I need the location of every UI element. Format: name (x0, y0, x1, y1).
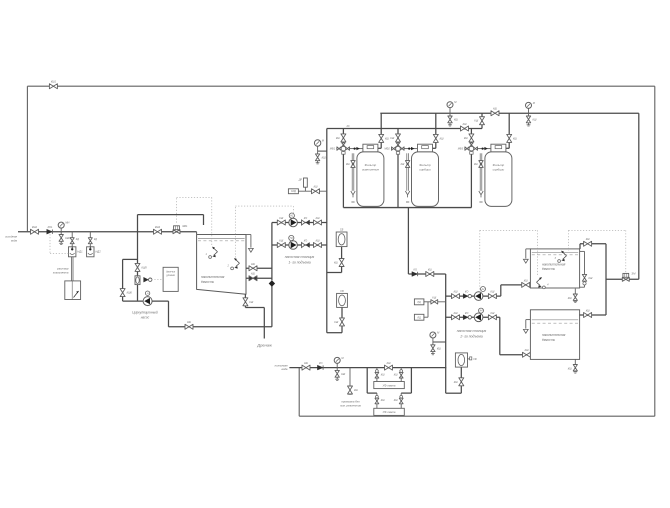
filter 2 head (418, 144, 433, 152)
valve on tank A fill (584, 238, 592, 246)
valve on tank B suction (523, 349, 531, 357)
control dash: tank A probe to station2 pump (480, 230, 538, 291)
wire: raw water main line (18, 231, 197, 233)
wire: UV unit 1 stems and side legs (367, 368, 411, 394)
valve on filter 3 backwash riser (464, 134, 474, 142)
tag circle N2 (289, 235, 294, 243)
svg-text:КД: КД (76, 238, 79, 241)
wire: filter 1 backwash riser / drain downpipe (342, 129, 344, 208)
svg-text:Н: Н (147, 292, 149, 295)
UV lamp unit 2 (374, 408, 405, 415)
level probe LS upper (middle tank) (206, 247, 218, 259)
svg-text:НД1: НД1 (77, 250, 83, 254)
valve on filter 1 filtered riser (379, 134, 390, 142)
pressure gauge MN1 (58, 221, 69, 232)
svg-text:Фильтр: Фильтр (419, 163, 431, 167)
valve KSh6 on bypass loop (120, 289, 132, 297)
valve KSh31 on suction link (426, 268, 434, 276)
svg-text:А4: А4 (479, 310, 484, 313)
svg-text:насосная станция: насосная станция (285, 255, 315, 259)
wire: filter 1 filtered riser (378, 113, 381, 148)
tag circle N1 (289, 213, 294, 218)
UV unit1 right stem valves (394, 370, 403, 378)
pressure switch box RD1 (414, 299, 424, 305)
pressure gauge MN3 (447, 100, 457, 113)
svg-text:хим. реагентов: хим. реагентов (339, 403, 361, 407)
label: tank A (542, 262, 566, 271)
svg-text:КШ: КШ (437, 346, 442, 350)
level transmitter box (163, 267, 178, 291)
svg-text:ёмкость: ёмкость (201, 280, 214, 284)
valve KSh4 before tank (154, 226, 162, 234)
solenoid valve EM2 tank fill (622, 271, 636, 281)
check valve KO1 raw inlet (47, 226, 53, 234)
svg-text:вода: вода (11, 238, 17, 242)
control dash: EM1 to middle tank level probe (177, 197, 212, 246)
svg-text:датчик: датчик (166, 270, 176, 274)
overflow funnel tank B (523, 320, 530, 334)
wire: filter 2 feed line with arrow (404, 147, 418, 150)
wire: manifold connector (481, 113, 483, 128)
svg-text:коагулянта: коагулянта (53, 270, 69, 274)
valve on filter 3 filtered riser (507, 134, 518, 142)
flow indicator box DR (288, 189, 326, 194)
wire: filter 1 feed line with arrow (349, 147, 363, 150)
wire: tank A side loop (580, 251, 585, 287)
bypass valve on bottom main line (385, 362, 393, 370)
check valve station2 line A (463, 291, 471, 299)
valve on filter 1 backwash riser (336, 134, 346, 142)
valve on tank A suction (522, 279, 530, 287)
tank B bottom drain (568, 359, 578, 373)
valve KSh11 (closed) on outlet stub 2 (249, 273, 257, 281)
valve on pump line B (suction) (277, 240, 285, 248)
wire: top bypass line (27, 85, 654, 87)
valve KSh10 on outlet stub 1 (249, 263, 257, 271)
node: raw water inlet label (5, 235, 17, 243)
valve KSh13 on circulation return (185, 321, 193, 329)
circulation pump (143, 291, 152, 306)
label: tank B (542, 333, 566, 342)
svg-text:осветления: осветления (362, 168, 379, 172)
svg-text:Фильтр: Фильтр (493, 163, 505, 167)
valve KSh1 on top bypass line (49, 81, 57, 89)
tank A bottom drain (568, 289, 578, 303)
multiport valve MF2 (384, 143, 404, 154)
label: solution tank (53, 267, 69, 275)
svg-text:КС: КС (347, 125, 350, 128)
svg-text:уровня: уровня (165, 274, 175, 277)
svg-text:КШ5: КШ5 (142, 266, 148, 269)
svg-text:КШ: КШ (454, 118, 459, 122)
storage tank (middle) накопительная ёмкость (197, 232, 246, 295)
svg-text:УФ лампа: УФ лампа (383, 383, 396, 387)
wire: pressure switch connections (424, 302, 446, 317)
label: circulation pump (132, 310, 158, 319)
svg-text:ЭМ1: ЭМ1 (182, 224, 188, 228)
overflow funnel of middle tank (246, 235, 253, 253)
label: drain (256, 342, 272, 347)
dosing pump ND1 with stub valve (69, 232, 84, 257)
svg-text:сорбции: сорбции (419, 168, 431, 172)
dosing pump ND2 with stub valve (87, 232, 102, 257)
svg-text:накопительная: накопительная (542, 333, 566, 337)
water meter vessel 2 (337, 290, 348, 308)
valve on manifold connector (474, 117, 484, 125)
svg-text:ёмкость: ёмкость (542, 267, 555, 271)
mesh filter SF (455, 353, 477, 367)
wire: station2 line A (446, 295, 501, 297)
wire: riser bottom to water meter 2 (327, 307, 342, 332)
svg-text:МФ3: МФ3 (458, 148, 464, 151)
storage tank A (530, 249, 579, 288)
wire: filter 2 backwash riser / drain downpipe (397, 129, 399, 208)
wire: tank bottom drain (245, 294, 264, 338)
label: pump station 2 (457, 329, 487, 339)
svg-text:КШ2: КШ2 (32, 226, 38, 229)
wire: circulation bypass loop (123, 259, 144, 301)
filter 1 vessel (357, 152, 384, 207)
svg-text:А2: А2 (481, 288, 486, 291)
wire: filter 2 filtered riser (433, 113, 436, 148)
level probe upper tank A (555, 251, 567, 263)
pressure switch box RD2 (414, 314, 424, 320)
valve KSh32 bottom inlet (302, 362, 310, 370)
filter 3 drain dip tube with strainer (474, 153, 483, 202)
valve on pump line A (discharge) (314, 217, 322, 225)
svg-text:МФ1: МФ1 (330, 148, 336, 151)
valve on filtered manifold (491, 108, 499, 116)
pressure gauge MN4 (526, 101, 536, 113)
svg-text:КШ: КШ (341, 372, 346, 376)
UV lamp unit 1 (374, 382, 405, 389)
filter 3 vessel (485, 152, 512, 207)
svg-text:КШ6: КШ6 (127, 292, 133, 295)
sampling valve KSh3 (59, 232, 71, 245)
label: wash without reagents (339, 400, 361, 408)
svg-text:КО: КО (304, 217, 307, 220)
wire: station1 suction manifold (271, 223, 273, 281)
valve on wash branch (348, 386, 359, 394)
check valve station2 line B (463, 312, 471, 320)
svg-text:РД: РД (418, 301, 421, 304)
node: bottom inlet label (275, 363, 288, 371)
wire: backwash manifold (327, 128, 482, 130)
svg-text:КШ: КШ (533, 118, 538, 122)
svg-text:насос: насос (141, 316, 150, 320)
sampling valve below MN4 (526, 113, 537, 126)
wire: UV unit 2 stems (377, 393, 401, 408)
rotameter DR on branch (298, 178, 308, 191)
wire: station1 discharge riser (326, 129, 328, 333)
svg-text:КШ4: КШ4 (155, 226, 161, 229)
valve on filter 2 backwash riser (390, 134, 400, 142)
valve on instrument branch (312, 186, 320, 194)
label: middle tank (201, 275, 225, 284)
wire: circulation suction drop (137, 215, 139, 302)
wire: pump line B (272, 244, 327, 246)
svg-text:накопительная: накопительная (201, 275, 225, 279)
svg-text:РД: РД (418, 316, 421, 319)
svg-text:КО: КО (414, 268, 417, 271)
svg-text:Дренаж: Дренаж (256, 342, 272, 347)
valve below mesh filter (454, 378, 464, 386)
pump N1 (station 1 line A) (289, 218, 298, 227)
svg-text:КО: КО (465, 312, 468, 315)
wire: wash branch down (349, 368, 351, 387)
chemical solution tank (65, 281, 81, 300)
svg-text:СВ: СВ (340, 228, 344, 231)
control dash: middle tank probe to pump N1 (235, 206, 293, 257)
svg-text:НД2: НД2 (96, 250, 102, 254)
wire: station2 line B (446, 316, 500, 318)
wire: station2 suction manifold (445, 274, 447, 393)
filter 2 drain dip tube with strainer (401, 153, 410, 202)
wire: station2 line B to tank B suction (500, 317, 531, 355)
wire: filtered water manifold (380, 112, 639, 114)
control dash: tank A probe to solenoid EM2 (569, 230, 626, 272)
valve on pressure switch line (431, 297, 438, 304)
label: pump station 1 (285, 255, 315, 264)
wire: recirc discharge J-pipe into tank (138, 215, 204, 225)
svg-text:СФ: СФ (473, 358, 477, 361)
wire: bottom left riser (298, 368, 300, 417)
wire: circulation return line (152, 284, 272, 327)
UV unit2 left stem valves (375, 395, 385, 403)
storage tank B (530, 310, 579, 360)
wire: pump line A (272, 222, 327, 224)
wire: dosing suction double line (71, 257, 73, 281)
svg-text:КД: КД (94, 238, 97, 241)
valve station2 line B left (452, 312, 460, 320)
svg-text:сорбции: сорбции (493, 168, 505, 172)
pressure gauge MN5 station2 (430, 331, 446, 343)
svg-text:Фильтр: Фильтр (365, 163, 377, 167)
sampling valve below MN5 (431, 342, 442, 355)
wire: filtered water to station 2 suction (408, 208, 445, 274)
wire: tank outlet stub 1 (246, 267, 272, 269)
tag circle A2 (481, 287, 486, 292)
check valve to level box (144, 277, 152, 282)
valve station2 line A right (488, 291, 496, 299)
wire: station2 manifold to mesh filter (446, 367, 462, 393)
wire: filters backwash drain channel (343, 207, 471, 209)
node: KC label on backwash manifold (347, 125, 350, 128)
svg-text:КО: КО (319, 362, 322, 365)
multiport valve MF3 (458, 143, 478, 154)
wire: branch to water meter 1 (327, 247, 342, 273)
valve on backwash manifold (461, 123, 469, 131)
svg-text:КШ1: КШ1 (51, 81, 57, 84)
pump N5 (station2 line B) (474, 313, 483, 322)
svg-text:КО: КО (304, 240, 307, 243)
valve KSh12 on tank drain (243, 298, 254, 306)
wire: filter 3 backwash riser / drain downpipe (470, 129, 472, 208)
valve on pump line A (suction) (277, 217, 285, 225)
svg-text:МФ2: МФ2 (384, 148, 390, 151)
valve KSh9 below water meter 2 (334, 318, 344, 326)
svg-text:2- го подъема: 2- го подъема (459, 335, 482, 339)
svg-text:ДР: ДР (298, 178, 303, 181)
pump N2 (station 1 line B) (289, 241, 298, 250)
svg-text:1- го подъема: 1- го подъема (288, 261, 310, 265)
svg-text:насосная станция: насосная станция (457, 329, 487, 333)
valve on tank A side loop (582, 274, 593, 285)
filter 2 vessel (412, 152, 439, 207)
overflow funnel tank A (523, 249, 530, 263)
svg-text:ёмкость: ёмкость (542, 338, 555, 342)
wire: filter 3 filtered riser (506, 113, 509, 148)
UV unit2 right stem valves (394, 395, 403, 403)
wire: bottom main line (289, 367, 446, 369)
svg-text:накопительная: накопительная (542, 262, 566, 266)
pump N4 (station2 line A) (474, 292, 483, 301)
valve station2 line B right (488, 312, 496, 320)
wire: tank A fill line (579, 244, 606, 315)
wire: bottom return line (299, 415, 655, 417)
svg-text:КО1: КО1 (48, 226, 53, 229)
junction diamond on suction manifold (269, 280, 275, 286)
valve KSh5 on circulation drop (135, 263, 147, 271)
wire: filter 3 feed line with arrow (477, 147, 491, 150)
UV unit1 left stem valves (375, 370, 385, 378)
wire: right bypass downcomer (654, 86, 656, 416)
valve KSh8 below water meter 1 (334, 259, 344, 267)
sampling valve below MN6 (335, 368, 346, 381)
svg-text:КШ7: КШ7 (322, 156, 328, 160)
valve on pump line B (discharge) (314, 240, 322, 248)
solenoid valve EM1 tank feed (173, 224, 188, 234)
svg-text:Циркуляционный: Циркуляционный (132, 310, 158, 314)
svg-text:МН: МН (65, 221, 69, 225)
valve on tank B fill (584, 309, 592, 317)
svg-text:СВ: СВ (340, 290, 344, 293)
level probe LT lower (middle tank) (227, 258, 240, 270)
wire: solenoid feed line from filtered manifold (606, 113, 639, 279)
multiport valve MF1 (330, 143, 350, 154)
svg-text:вода: вода (281, 367, 287, 371)
valve KSh2 raw inlet (31, 226, 39, 234)
pressure gauge MN2 on riser (314, 139, 327, 164)
valve station2 line A left (452, 291, 460, 299)
wire: riser to top bypass line (26, 86, 28, 232)
wire: tank outlet stub 2 (246, 277, 272, 279)
check valve line B (302, 240, 310, 248)
check valve line A (302, 217, 310, 225)
svg-text:УФ лампа: УФ лампа (383, 410, 396, 414)
valve on filter 2 filtered riser (433, 134, 444, 142)
water meter vessel 1 (336, 228, 347, 246)
sampling valve below MN3 (448, 113, 459, 126)
pressure gauge MN6 (334, 356, 344, 368)
control dash: to level transmitter box (152, 279, 163, 281)
tag circle A4 (479, 308, 484, 313)
check valve KO2 on suction link (412, 268, 418, 276)
level probe LS tank A (537, 277, 550, 289)
svg-text:СИД: СИД (291, 191, 296, 193)
wire: station2 line A to tank A suction (501, 285, 531, 296)
filter 1 drain dip tube with strainer (346, 153, 355, 202)
control dash: check valve to dosing pump (50, 234, 69, 253)
check valve KO3 bottom inlet (317, 362, 323, 370)
svg-text:КО: КО (465, 291, 468, 294)
filter 1 head (363, 144, 378, 152)
filter 3 head (491, 144, 506, 152)
water meter on circulation drop (135, 276, 140, 285)
